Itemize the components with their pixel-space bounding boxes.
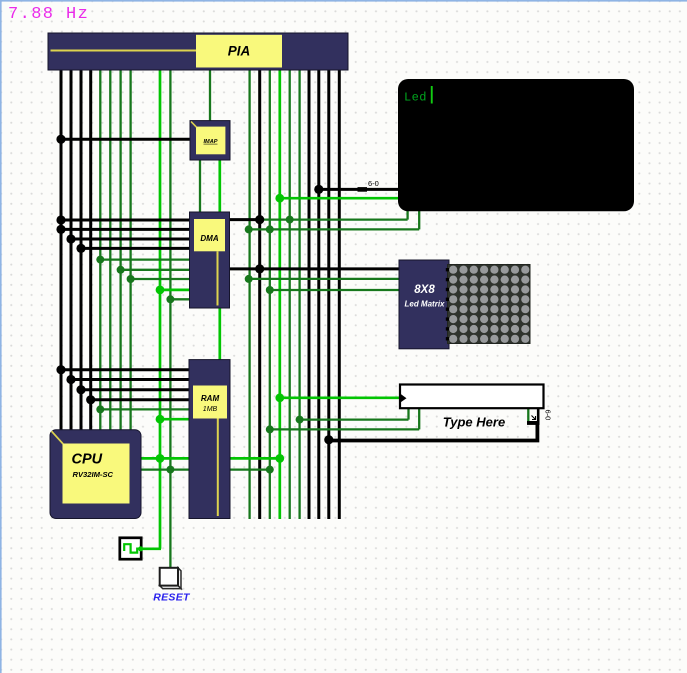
wire IMAP to DMA clock vertical V13 (218, 159, 221, 213)
svg-text:PIA: PIA (228, 44, 251, 59)
wire mid bus green vertical V20 (298, 66, 300, 519)
led matrix grid (446, 265, 530, 344)
wire DMA green horizontal H7 (121, 269, 190, 271)
svg-text:6-0: 6-0 (544, 410, 553, 421)
wire keyboard clock horizontal H25 (280, 396, 400, 399)
wire bus green vertical V8 (129, 66, 131, 430)
wire IMAP to DMA vertical V12 (199, 159, 201, 213)
wire bus black vertical V1 (60, 66, 63, 430)
wire DMA input horizontal H3 (61, 228, 190, 231)
wire mid bus black vertical V21 (308, 66, 311, 519)
wire DMA to RAM vertical V14 (218, 307, 221, 361)
svg-text:RV32IM-SC: RV32IM-SC (73, 470, 114, 479)
svg-text:Type Here: Type Here (443, 414, 505, 429)
wire display data horizontal H12 (260, 209, 408, 220)
display terminal Led (398, 79, 634, 211)
svg-text:8X8: 8X8 (414, 284, 435, 296)
wire bus black vertical V4 (89, 66, 92, 430)
keyboard Type Here (400, 385, 553, 430)
keyboard output connector bar (527, 421, 540, 425)
svg-text:RAM: RAM (201, 394, 220, 403)
subcircuit DMA (190, 212, 230, 308)
canvas top border (0, 0, 687, 2)
wire matrix row horizontal H16 (230, 267, 399, 270)
wire DMA input horizontal H4 (71, 238, 190, 241)
svg-text:CPU: CPU (72, 452, 103, 468)
wire DMA input horizontal H2 (61, 219, 190, 222)
subcircuit 8X8 Led Matrix (399, 260, 449, 349)
wire keyboard pin horizontal H26 (300, 408, 409, 420)
wire bus green vertical V6 (109, 66, 111, 430)
wire mid bus green vertical V17 (269, 66, 271, 519)
wire bus black vertical V3 (80, 66, 83, 430)
wire DMA out to display horizontal H11 (230, 218, 261, 221)
wire reset net vertical V10 (169, 66, 171, 571)
canvas left border (0, 0, 2, 673)
wire clock net vertical V9 (159, 66, 162, 549)
svg-text:Led Matrix: Led Matrix (404, 300, 445, 309)
svg-text:IMAP: IMAP (204, 139, 218, 145)
wire display data horizontal H13 (249, 209, 420, 229)
wire keyboard output horizontal H28 (329, 424, 540, 441)
svg-text:7.88 Hz: 7.88 Hz (8, 5, 89, 24)
wire IMAP address horizontal H1 (61, 138, 190, 141)
wire keyboard pin horizontal H27 (270, 408, 419, 429)
subcircuit PIA (48, 33, 348, 70)
node junction dots bright green (156, 194, 285, 463)
subcircuit RAM 1MB (189, 360, 230, 519)
clock generator (120, 538, 143, 559)
wire bus black vertical V2 (70, 66, 73, 430)
wire DMA clock horizontal H9 (160, 289, 190, 292)
wire RAM input horizontal H21 (81, 388, 189, 391)
wire display ascii input horizontal H14 (319, 188, 399, 191)
wire CPU reset horizontal H30 (141, 468, 270, 470)
wire DMA green horizontal H6 (100, 258, 189, 260)
wire DMA green horizontal H8 (131, 278, 190, 280)
wire mid bus black vertical V16 (258, 66, 261, 519)
node junction dots dark green (96, 216, 303, 474)
wire CPU clock horizontal H29 (141, 457, 280, 460)
wire clock output horizontal H31 (141, 547, 162, 550)
wire RAM input horizontal H22 (91, 398, 189, 401)
wire PIA to IMAP vertical V11 (209, 66, 211, 121)
svg-text:DMA: DMA (200, 234, 218, 243)
wire bus green vertical V7 (119, 66, 121, 430)
wire bus green vertical V5 (99, 66, 101, 430)
keyboard output arrow mark (532, 416, 536, 420)
wire mid bus black vertical V24 (338, 66, 341, 519)
wire RAM input horizontal H20 (71, 378, 189, 381)
wire mid bus black vertical V22 (317, 66, 320, 519)
node junction dots black (56, 135, 367, 445)
subcircuit IMAP (190, 121, 230, 160)
wire keyboard output pin vertical (537, 408, 540, 421)
wire mid bus bright green vertical V18 (278, 66, 281, 519)
svg-text:1MB: 1MB (203, 406, 218, 413)
wire mid bus green vertical V15 (248, 66, 250, 519)
wire RAM clock horizontal H24 (160, 418, 189, 421)
wire display clock horizontal H15 (280, 197, 399, 200)
wire matrix data horizontal H18 (270, 289, 399, 291)
wire mid bus green vertical V19 (289, 66, 291, 519)
wire DMA reset horizontal H10 (170, 298, 189, 300)
reset push button (160, 568, 181, 589)
wire keyboard output stub green (527, 407, 529, 421)
svg-text:Led: Led (404, 91, 427, 105)
wire mid bus black vertical V23 (327, 66, 330, 519)
wire DMA input horizontal H5 (81, 247, 190, 250)
subcircuit CPU RV32IM-SC (50, 430, 141, 519)
wire RAM input horizontal H19 (61, 368, 189, 371)
svg-text:RESET: RESET (153, 592, 191, 604)
svg-text:6-0: 6-0 (368, 179, 379, 188)
wire matrix data horizontal H17 (249, 278, 399, 280)
wire RAM green horizontal H23 (100, 408, 189, 410)
